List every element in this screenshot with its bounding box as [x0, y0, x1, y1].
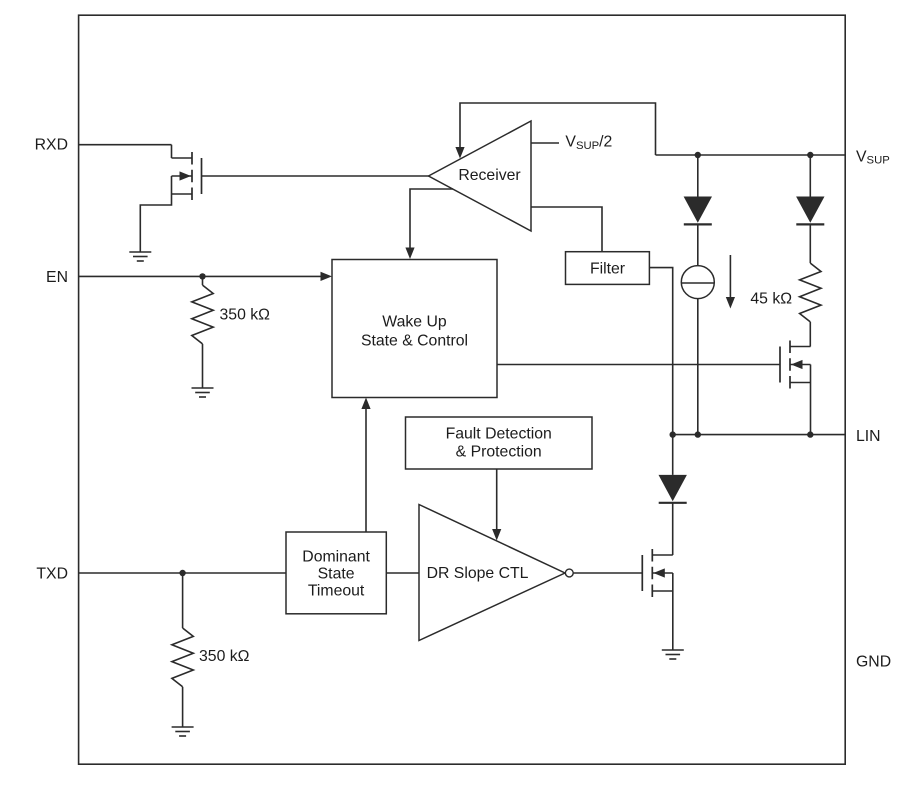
svg-text:LIN: LIN — [856, 428, 881, 445]
inverter bubble on U2 output — [565, 569, 573, 577]
resistor R2 350 k (TXD pullup) — [172, 573, 193, 727]
wire current source to LIN — [697, 299, 699, 435]
resistor R1 350 k (EN pulldown) — [192, 276, 213, 388]
svg-text:VSUP: VSUP — [856, 149, 890, 167]
svg-text:TXD: TXD — [36, 566, 68, 583]
block Wake Up State & Control — [332, 260, 497, 398]
label 350 kOhm (TXD) — [199, 648, 250, 665]
ground under Q3 — [662, 650, 684, 659]
wire Q1 gate to receiver output — [202, 175, 429, 177]
block Filter — [566, 252, 650, 285]
svg-text:& Protection: & Protection — [456, 443, 542, 460]
pin label GND — [856, 654, 891, 671]
svg-text:State & Control: State & Control — [361, 332, 468, 349]
buffer U2 DR Slope CTL — [419, 505, 565, 641]
svg-text:Wake Up: Wake Up — [382, 314, 447, 331]
svg-text:DR Slope CTL: DR Slope CTL — [427, 565, 529, 582]
svg-text:350 kΩ: 350 kΩ — [220, 307, 271, 324]
wire VSUP rail — [656, 154, 846, 156]
ground under Q1 — [129, 252, 151, 261]
node VSUP junction left — [695, 152, 701, 158]
wire Q3 source to ground — [672, 573, 674, 650]
svg-text:350 kΩ: 350 kΩ — [199, 648, 250, 665]
transistor Q3 (LIN driver MOSFET) — [642, 549, 673, 597]
junction dot on TXD line — [179, 570, 185, 576]
wire EN pin to Wake Up block — [79, 272, 332, 281]
pin label TXD — [36, 566, 68, 583]
transistor Q1 (RXD output MOSFET) — [172, 152, 202, 200]
current direction arrow — [726, 255, 735, 309]
diode D2 (LIN pullup) — [796, 155, 824, 263]
current source I1 — [681, 266, 714, 299]
ground under R1 — [192, 388, 214, 397]
transistor Q2 (pullup switch MOSFET) — [780, 341, 811, 389]
resistor R3 45 k (LIN pullup) — [800, 263, 821, 346]
node VSUP junction right — [807, 152, 813, 158]
block Fault Detection & Protection — [406, 417, 593, 469]
wire Wake Up output to Q2 gate — [497, 364, 780, 366]
label 45 kOhm — [750, 290, 792, 307]
svg-text:Filter: Filter — [590, 260, 625, 277]
wire timeout block to Wake Up block — [361, 398, 370, 533]
node LIN junction 3 — [807, 431, 813, 437]
ground under R2 — [172, 727, 194, 736]
wire timeout block to slope control — [386, 572, 419, 574]
wire receiver output to filter — [531, 207, 602, 252]
node LIN junction 1 — [670, 431, 676, 437]
svg-text:Receiver: Receiver — [458, 167, 520, 184]
svg-text:Fault Detection: Fault Detection — [446, 425, 552, 442]
wire receiver reference stub — [531, 142, 559, 144]
node LIN junction 2 — [695, 431, 701, 437]
wire fault block to slope control — [492, 469, 501, 541]
label 350 kOhm (EN) — [220, 307, 271, 324]
wire VSUP feedback to receiver — [455, 103, 655, 159]
diode D1 (wake current source) — [684, 155, 712, 266]
junction dot on EN line — [199, 273, 205, 279]
wire Q1 source to ground — [140, 176, 171, 252]
svg-text:45 kΩ: 45 kΩ — [750, 290, 792, 307]
pin label VSUP — [856, 149, 890, 167]
wire LIN rail — [673, 434, 846, 436]
wire RXD pin to Q1 drain — [79, 145, 172, 158]
pin label EN — [46, 269, 68, 286]
wire U2 output to Q3 gate — [573, 572, 642, 574]
block Dominant State Timeout — [286, 532, 386, 614]
svg-text:GND: GND — [856, 654, 891, 671]
diode D3 (LIN to driver) — [659, 435, 687, 555]
pin label RXD — [35, 137, 68, 154]
svg-text:VSUP/2: VSUP/2 — [565, 134, 612, 152]
wire filter output down to LIN — [649, 268, 672, 435]
wire receiver to Wake Up block — [405, 189, 453, 259]
pin label LIN — [856, 428, 881, 445]
label VSUP/2 — [565, 134, 612, 152]
svg-text:EN: EN — [46, 269, 68, 286]
wire TXD pin to timeout block — [79, 572, 286, 574]
IC boundary box — [79, 15, 846, 764]
svg-text:RXD: RXD — [35, 137, 68, 154]
svg-text:Dominant: Dominant — [302, 549, 370, 566]
wire Q2 source to LIN — [810, 365, 812, 435]
svg-text:Timeout: Timeout — [308, 582, 365, 599]
op-amp U1 Receiver — [429, 121, 532, 231]
svg-text:State: State — [318, 566, 355, 583]
